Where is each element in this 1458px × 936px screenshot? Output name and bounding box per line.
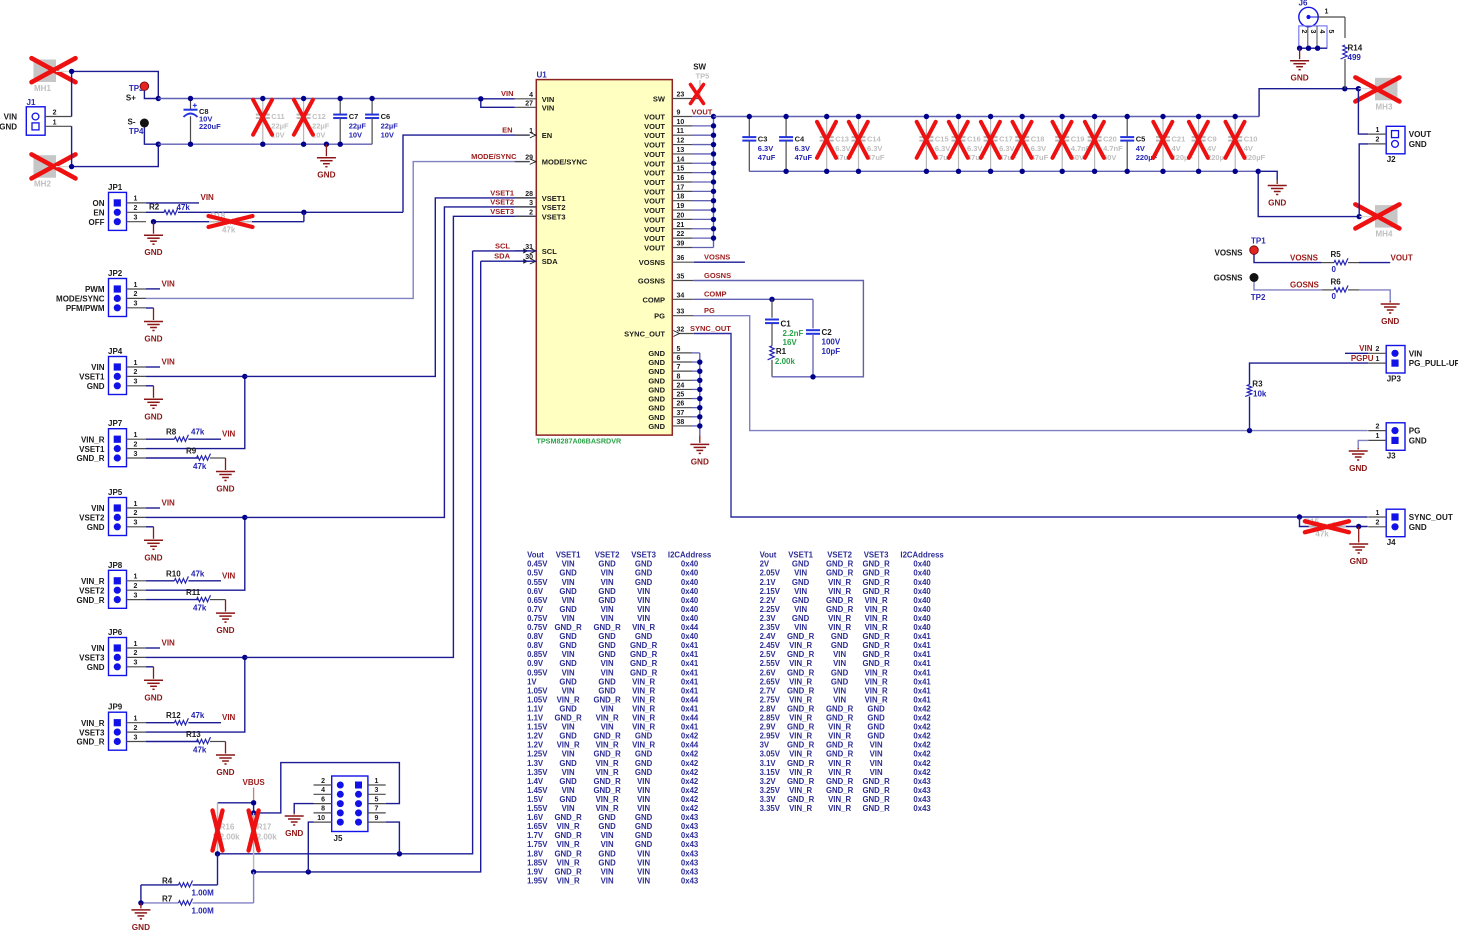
- net label VIN at JP3.2: [1345, 344, 1373, 354]
- U1 pin 6 GND: [648, 355, 699, 367]
- svg-text:C6: C6: [381, 112, 391, 121]
- svg-text:GND_R: GND_R: [554, 813, 582, 822]
- svg-text:VOUT: VOUT: [1391, 253, 1413, 262]
- svg-text:GND: GND: [559, 795, 577, 804]
- svg-text:47k: 47k: [191, 711, 205, 720]
- svg-text:GND: GND: [144, 335, 162, 344]
- svg-text:C5: C5: [1136, 134, 1146, 143]
- svg-text:VIN: VIN: [91, 644, 105, 653]
- resistor R15 47k DNP: [1300, 517, 1368, 539]
- capacitor C15 47uF: [917, 114, 953, 174]
- svg-text:GND_R: GND_R: [862, 560, 890, 569]
- svg-text:VBUS: VBUS: [243, 778, 266, 787]
- svg-text:28: 28: [525, 191, 533, 198]
- svg-text:3: 3: [529, 200, 533, 207]
- svg-text:VIN: VIN: [637, 786, 650, 795]
- resistor R5 0: [1322, 250, 1391, 274]
- svg-text:47k: 47k: [191, 569, 205, 578]
- net label GOSNS at R6: [1290, 281, 1320, 290]
- wire R4/R7 join: [138, 885, 143, 906]
- ground at JP4.3: [144, 386, 163, 422]
- svg-text:GND: GND: [559, 641, 577, 650]
- svg-text:1: 1: [134, 716, 138, 723]
- svg-text:VSET3: VSET3: [864, 551, 889, 560]
- svg-text:VIN_R: VIN_R: [865, 623, 888, 632]
- U1 pin 23 SW: [653, 91, 702, 103]
- svg-text:2: 2: [134, 369, 138, 376]
- svg-text:VSET2: VSET2: [79, 514, 105, 523]
- resistor R8 47k: [146, 428, 221, 442]
- svg-text:GND: GND: [132, 923, 150, 932]
- svg-text:9: 9: [375, 815, 379, 822]
- svg-text:GOSNS: GOSNS: [638, 277, 665, 286]
- svg-text:GND_R: GND_R: [787, 704, 815, 713]
- svg-text:1.85V: 1.85V: [527, 858, 548, 867]
- svg-text:0x41: 0x41: [913, 677, 931, 686]
- svg-text:VIN: VIN: [637, 858, 650, 867]
- svg-text:GND_R: GND_R: [787, 686, 815, 695]
- svg-text:VIN: VIN: [601, 876, 614, 885]
- svg-text:VIN: VIN: [794, 605, 807, 614]
- svg-text:C19: C19: [1071, 134, 1085, 143]
- wire VIN J1.2 to top rail: [56, 69, 158, 117]
- capacitor C5 220µF: [1120, 114, 1157, 174]
- svg-text:47k: 47k: [177, 203, 191, 212]
- net label VIN at JP6.1: [146, 639, 175, 649]
- svg-text:GND_R: GND_R: [593, 750, 621, 759]
- U1 pin 16 VOUT: [644, 175, 713, 187]
- svg-text:10: 10: [317, 815, 325, 822]
- svg-text:VOUT: VOUT: [644, 150, 665, 159]
- svg-text:0.45V: 0.45V: [527, 560, 548, 569]
- svg-text:0x41: 0x41: [913, 650, 931, 659]
- wire VSET1 to JP7: [146, 374, 248, 449]
- U1 pin 20 VOUT: [644, 212, 713, 224]
- svg-text:JP9: JP9: [108, 703, 123, 712]
- svg-text:3.3V: 3.3V: [760, 795, 777, 804]
- svg-text:VIN: VIN: [562, 650, 575, 659]
- svg-text:PFM/PWM: PFM/PWM: [66, 304, 105, 313]
- svg-text:6: 6: [677, 355, 681, 362]
- svg-text:C16: C16: [967, 134, 981, 143]
- jumper JP3 PG pull-up: [1368, 346, 1458, 384]
- svg-text:0x43: 0x43: [913, 804, 931, 813]
- svg-text:11: 11: [677, 128, 685, 135]
- svg-text:GND: GND: [648, 385, 665, 394]
- U1 pin 4 VIN: [515, 92, 555, 104]
- svg-text:3: 3: [134, 660, 138, 667]
- svg-text:220uF: 220uF: [199, 122, 221, 131]
- svg-text:0.6V: 0.6V: [527, 587, 544, 596]
- svg-text:JP6: JP6: [108, 628, 123, 637]
- svg-text:R9: R9: [186, 447, 197, 456]
- svg-text:VIN_R: VIN_R: [789, 804, 812, 813]
- svg-text:VIN_R: VIN_R: [828, 804, 851, 813]
- net label VSET2 at U1: [490, 197, 514, 206]
- net label EN at U1: [502, 126, 512, 135]
- svg-text:0x43: 0x43: [681, 867, 699, 876]
- svg-text:10pF: 10pF: [822, 347, 841, 356]
- svg-text:VIN_R: VIN_R: [81, 435, 105, 444]
- svg-text:VIN: VIN: [833, 695, 846, 704]
- svg-text:1.75V: 1.75V: [527, 840, 548, 849]
- wire VSET2 to JP8: [146, 515, 248, 591]
- svg-text:13: 13: [677, 147, 685, 154]
- wire VIN to U1 pins 4/27: [478, 96, 515, 107]
- svg-text:GND: GND: [144, 412, 162, 421]
- svg-text:0: 0: [1332, 292, 1337, 301]
- svg-text:VIN_R: VIN_R: [596, 768, 619, 777]
- svg-text:VOUT: VOUT: [644, 215, 665, 224]
- net label VOSNS at U1: [694, 253, 745, 263]
- svg-text:VOUT: VOUT: [644, 141, 665, 150]
- wire MODE/SYNC net: [146, 162, 536, 299]
- jumper JP2 mode select: [56, 269, 146, 317]
- svg-text:3V: 3V: [760, 741, 770, 750]
- svg-text:R1: R1: [776, 347, 787, 356]
- svg-text:4V: 4V: [1244, 144, 1253, 153]
- svg-text:3.2V: 3.2V: [760, 777, 777, 786]
- svg-text:4: 4: [529, 92, 533, 99]
- svg-text:VIN_R: VIN_R: [789, 695, 812, 704]
- svg-text:C20: C20: [1103, 134, 1117, 143]
- ground at JP5.3: [144, 527, 163, 563]
- resistor R13 47k: [146, 730, 226, 755]
- svg-text:2.85V: 2.85V: [760, 714, 781, 723]
- svg-text:0x41: 0x41: [681, 723, 699, 732]
- svg-text:GND: GND: [1381, 317, 1399, 326]
- svg-text:VIN: VIN: [794, 623, 807, 632]
- svg-text:VIN: VIN: [870, 750, 883, 759]
- svg-text:VIN: VIN: [562, 560, 575, 569]
- svg-text:GND_R: GND_R: [862, 659, 890, 668]
- svg-text:0x41: 0x41: [681, 659, 699, 668]
- svg-text:GND: GND: [635, 750, 653, 759]
- svg-text:VIN_R: VIN_R: [789, 732, 812, 741]
- svg-text:JP8: JP8: [108, 561, 123, 570]
- svg-text:PG_PULL-UP: PG_PULL-UP: [1409, 359, 1458, 368]
- svg-text:VOUT: VOUT: [644, 225, 665, 234]
- svg-text:C21: C21: [1172, 134, 1186, 143]
- svg-text:2: 2: [134, 441, 138, 448]
- svg-text:0x41: 0x41: [681, 704, 699, 713]
- resistor R1 2.00k: [768, 346, 796, 377]
- svg-text:SDA: SDA: [542, 257, 558, 266]
- svg-text:VIN: VIN: [637, 614, 650, 623]
- svg-text:J6: J6: [1299, 0, 1308, 8]
- svg-text:VIN: VIN: [222, 430, 236, 439]
- svg-text:GND_R: GND_R: [862, 650, 890, 659]
- svg-text:GND: GND: [144, 693, 162, 702]
- U1 pin 3 VSET2: [515, 200, 566, 212]
- svg-text:2.35V: 2.35V: [760, 623, 781, 632]
- svg-text:GND: GND: [1409, 140, 1427, 149]
- svg-text:VIN_R: VIN_R: [81, 719, 105, 728]
- svg-text:22µF: 22µF: [271, 121, 289, 130]
- svg-text:GND_R: GND_R: [554, 867, 582, 876]
- svg-text:GND: GND: [867, 723, 885, 732]
- svg-text:R16: R16: [220, 823, 235, 832]
- net label VIN at JP8.1: [222, 571, 236, 580]
- svg-text:R11: R11: [186, 588, 201, 597]
- svg-text:VIN: VIN: [601, 723, 614, 732]
- svg-text:1.2V: 1.2V: [527, 732, 544, 741]
- svg-text:S-: S-: [128, 118, 136, 127]
- svg-text:VOUT: VOUT: [1409, 130, 1432, 139]
- svg-text:2: 2: [1376, 346, 1380, 353]
- wire VOUT bus vertical: [711, 114, 716, 248]
- svg-text:VIN_R: VIN_R: [828, 587, 851, 596]
- svg-text:1: 1: [134, 641, 138, 648]
- svg-text:GND: GND: [144, 248, 162, 257]
- svg-text:R17: R17: [257, 823, 272, 832]
- svg-text:JP2: JP2: [108, 269, 123, 278]
- svg-text:GND: GND: [317, 171, 335, 180]
- svg-text:1: 1: [1325, 9, 1329, 16]
- svg-text:VSET2: VSET2: [827, 551, 852, 560]
- svg-text:2.75V: 2.75V: [760, 695, 781, 704]
- svg-text:GND_R: GND_R: [862, 578, 890, 587]
- svg-text:GND: GND: [1409, 436, 1427, 445]
- ground at J5.6: [285, 813, 304, 838]
- svg-text:GND: GND: [635, 560, 653, 569]
- svg-text:VIN_R: VIN_R: [596, 795, 619, 804]
- svg-text:VIN: VIN: [91, 363, 105, 372]
- svg-text:GND_R: GND_R: [593, 732, 621, 741]
- resistor R4 1.00M: [141, 854, 218, 898]
- U1 pin 25 GND: [648, 392, 699, 404]
- svg-text:VIN: VIN: [637, 867, 650, 876]
- svg-text:0.75V: 0.75V: [527, 614, 548, 623]
- svg-text:0x42: 0x42: [681, 759, 699, 768]
- input connector J1: [0, 98, 72, 135]
- svg-text:VIN_R: VIN_R: [632, 714, 655, 723]
- svg-text:GND_R: GND_R: [826, 786, 854, 795]
- svg-text:GND_R: GND_R: [787, 632, 815, 641]
- svg-text:GND: GND: [635, 569, 653, 578]
- svg-text:VIN: VIN: [637, 777, 650, 786]
- wire SCL net: [218, 251, 537, 857]
- wire COMP to C1/C2: [694, 297, 813, 302]
- svg-text:GND: GND: [559, 704, 577, 713]
- svg-text:GND: GND: [867, 714, 885, 723]
- net label VIN at JP5.1: [146, 499, 175, 509]
- svg-text:VIN: VIN: [870, 768, 883, 777]
- svg-text:1: 1: [134, 196, 138, 203]
- U1 pin 30 SDA: [515, 254, 558, 266]
- svg-text:2.05V: 2.05V: [760, 569, 781, 578]
- U1 pin 26 GND: [648, 401, 699, 413]
- svg-text:26: 26: [677, 401, 685, 408]
- U1 pin 38 GND: [648, 419, 699, 431]
- svg-text:4: 4: [321, 787, 325, 794]
- svg-text:VIN: VIN: [4, 113, 18, 122]
- svg-text:220µF: 220µF: [1244, 153, 1266, 162]
- svg-text:GND: GND: [635, 578, 653, 587]
- svg-text:GND: GND: [831, 677, 849, 686]
- svg-text:VIN_R: VIN_R: [789, 659, 812, 668]
- svg-text:2.2nF: 2.2nF: [783, 329, 804, 338]
- svg-text:1.4V: 1.4V: [527, 777, 544, 786]
- svg-text:VSET1: VSET1: [79, 373, 105, 382]
- svg-text:GND: GND: [598, 677, 616, 686]
- svg-text:22: 22: [677, 231, 685, 238]
- svg-text:GND: GND: [1409, 523, 1427, 532]
- svg-text:2.15V: 2.15V: [760, 587, 781, 596]
- svg-text:2: 2: [1300, 30, 1307, 34]
- svg-text:2.00k: 2.00k: [257, 832, 278, 841]
- svg-text:VOUT: VOUT: [644, 169, 665, 178]
- svg-text:VIN: VIN: [794, 587, 807, 596]
- mounting hole MH1: [32, 58, 76, 93]
- svg-text:VSET2: VSET2: [542, 203, 566, 212]
- svg-text:VIN_R: VIN_R: [828, 614, 851, 623]
- svg-text:3: 3: [134, 734, 138, 741]
- svg-text:GND_R: GND_R: [826, 714, 854, 723]
- svg-text:2.6V: 2.6V: [760, 668, 777, 677]
- capacitor C11 22uF DNP: [253, 96, 289, 147]
- svg-text:R6: R6: [1331, 277, 1342, 286]
- svg-text:TP1: TP1: [1251, 236, 1266, 245]
- svg-text:VIN: VIN: [833, 659, 846, 668]
- svg-text:19: 19: [677, 203, 685, 210]
- svg-text:GND_R: GND_R: [630, 668, 658, 677]
- svg-text:0x42: 0x42: [681, 804, 699, 813]
- svg-text:GND: GND: [792, 578, 810, 587]
- svg-text:21: 21: [677, 222, 685, 229]
- svg-text:0x43: 0x43: [681, 813, 699, 822]
- svg-text:SDA: SDA: [494, 252, 510, 261]
- ground at JP2.3: [144, 308, 163, 344]
- svg-text:TP2: TP2: [1251, 293, 1266, 302]
- capacitor C6 22uF 10V: [365, 96, 398, 144]
- svg-text:GND_R: GND_R: [826, 741, 854, 750]
- svg-text:GND_R: GND_R: [787, 668, 815, 677]
- capacitor C20 50V: [1085, 114, 1123, 174]
- svg-text:0x42: 0x42: [913, 732, 931, 741]
- svg-text:GND: GND: [216, 768, 234, 777]
- svg-text:J5: J5: [334, 834, 343, 843]
- capacitor C19 50V: [1053, 114, 1091, 174]
- wire GND J1.1 to bottom rail: [56, 126, 158, 169]
- svg-text:GND: GND: [648, 395, 665, 404]
- capacitor C2 10pF 100V: [806, 299, 841, 377]
- U1 pin 37 GND: [648, 410, 699, 422]
- svg-text:8: 8: [677, 373, 681, 380]
- svg-text:0x41: 0x41: [913, 686, 931, 695]
- U1 pin 18 VOUT: [644, 194, 713, 206]
- svg-text:VIN_R: VIN_R: [789, 714, 812, 723]
- svg-text:47uF: 47uF: [795, 153, 813, 162]
- svg-text:36: 36: [677, 255, 685, 262]
- svg-text:2.65V: 2.65V: [760, 677, 781, 686]
- svg-text:1.9V: 1.9V: [527, 867, 544, 876]
- U1 pin 28 VSET1: [515, 191, 566, 203]
- net label VIN at U1: [501, 89, 514, 98]
- capacitor C17 47uF: [981, 114, 1017, 174]
- U1 pin 11 VOUT: [644, 128, 713, 140]
- svg-text:GND: GND: [598, 858, 616, 867]
- svg-text:SYNC_OUT: SYNC_OUT: [1409, 513, 1453, 522]
- svg-text:GND: GND: [598, 560, 616, 569]
- svg-text:VIN: VIN: [601, 840, 614, 849]
- jumper JP7: [76, 419, 146, 467]
- svg-text:J4: J4: [1387, 538, 1396, 547]
- svg-text:6.3V: 6.3V: [935, 144, 950, 153]
- svg-text:VIN_R: VIN_R: [865, 596, 888, 605]
- svg-text:GND_R: GND_R: [76, 596, 104, 605]
- svg-text:VSET1: VSET1: [788, 551, 813, 560]
- svg-text:VIN: VIN: [562, 768, 575, 777]
- U1 pin 1 EN: [515, 128, 552, 140]
- svg-text:0x44: 0x44: [681, 714, 699, 723]
- svg-text:GND: GND: [648, 404, 665, 413]
- svg-text:C10: C10: [1244, 134, 1258, 143]
- svg-text:0x40: 0x40: [681, 596, 699, 605]
- svg-text:2.9V: 2.9V: [760, 723, 777, 732]
- svg-text:0x40: 0x40: [681, 605, 699, 614]
- resistor R2 47k: [146, 202, 304, 214]
- svg-text:VOSNS: VOSNS: [704, 253, 730, 262]
- svg-text:SCL: SCL: [495, 241, 510, 250]
- svg-text:1: 1: [134, 501, 138, 508]
- svg-text:VIN_R: VIN_R: [596, 759, 619, 768]
- svg-text:3: 3: [1309, 30, 1316, 34]
- wire EN net to riser: [301, 210, 403, 215]
- svg-text:VOUT: VOUT: [692, 108, 713, 117]
- svg-text:C14: C14: [867, 134, 882, 143]
- svg-text:1.15V: 1.15V: [527, 723, 548, 732]
- svg-text:EN: EN: [502, 126, 512, 135]
- svg-text:GND: GND: [598, 650, 616, 659]
- wire VSET3 run to U1: [245, 216, 537, 657]
- svg-text:VIN_R: VIN_R: [865, 668, 888, 677]
- ground at R6: [1381, 301, 1400, 326]
- resistor R18 47k DNP: [151, 212, 304, 235]
- svg-text:C7: C7: [349, 112, 359, 121]
- jumper JP5: [79, 488, 146, 536]
- svg-text:47k: 47k: [193, 604, 207, 613]
- svg-text:VOSNS: VOSNS: [1214, 249, 1243, 258]
- wire VSET3 net: [146, 656, 245, 658]
- svg-text:0.75V: 0.75V: [527, 623, 548, 632]
- svg-text:2: 2: [1376, 137, 1380, 144]
- svg-text:25: 25: [677, 392, 685, 399]
- svg-text:1.1V: 1.1V: [527, 714, 544, 723]
- wire VSET2 run to U1: [245, 207, 537, 518]
- net label PGPU at JP3.1: [1351, 354, 1374, 363]
- svg-text:0x41: 0x41: [681, 686, 699, 695]
- svg-text:VIN: VIN: [870, 759, 883, 768]
- connector J3 PG: [1368, 423, 1427, 461]
- svg-text:R13: R13: [186, 730, 201, 739]
- wire J2.2 to GND rail: [1359, 144, 1368, 217]
- svg-text:0.7V: 0.7V: [527, 605, 544, 614]
- svg-text:0.95V: 0.95V: [527, 668, 548, 677]
- svg-text:1.7V: 1.7V: [527, 831, 544, 840]
- svg-text:GND: GND: [559, 777, 577, 786]
- VSET configuration table right half: [760, 551, 945, 813]
- svg-text:0x43: 0x43: [913, 795, 931, 804]
- svg-text:2.95V: 2.95V: [760, 732, 781, 741]
- svg-text:0x41: 0x41: [681, 650, 699, 659]
- U1 pin 9 VOUT: [644, 110, 713, 122]
- svg-text:0x41: 0x41: [681, 641, 699, 650]
- ground at J6: [1290, 48, 1309, 82]
- svg-text:2.1V: 2.1V: [760, 578, 777, 587]
- svg-text:C18: C18: [1031, 134, 1045, 143]
- svg-text:1.1V: 1.1V: [527, 704, 544, 713]
